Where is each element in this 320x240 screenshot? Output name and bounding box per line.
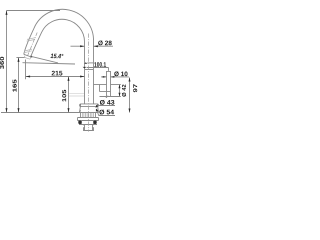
label dia 28 [98, 41, 112, 46]
body seam line [85, 69, 93, 71]
top extension line [7, 10, 61, 12]
dim 42 ext top [111, 84, 121, 86]
arrow 10 left [103, 76, 107, 78]
spray head step 2 [24, 51, 32, 53]
label dia 10 [114, 71, 127, 76]
dim 28 left arrow line [71, 45, 85, 47]
skirt corner shading [80, 110, 98, 112]
spray head step 1 [24, 49, 32, 51]
label dia 54 [99, 110, 114, 115]
hose tube foot tick [106, 96, 108, 98]
arrow 100.1 collar bottom [83, 67, 87, 69]
arrow 215 left [26, 76, 30, 78]
spray head aerator [24, 56, 30, 60]
text labels [0, 41, 137, 115]
dim 100.1 lower leader [87, 67, 109, 69]
dim 100.1 right tick [108, 68, 110, 71]
arrow 97 bottom [129, 109, 131, 113]
label 105 [62, 90, 66, 102]
dim 10 right leader [111, 76, 129, 78]
arrow 42 bottom [119, 93, 121, 97]
washer [78, 118, 99, 121]
lower stem [85, 125, 93, 131]
label dia 43 [100, 100, 115, 105]
base skirt [80, 107, 99, 113]
counter top line [1, 112, 99, 114]
dim 43 leader [96, 106, 115, 108]
spray head seam 1 [27, 38, 35, 40]
arrow 105 bottom [68, 108, 70, 112]
arrow 97 top [129, 78, 131, 82]
arrow 54 [96, 109, 98, 112]
faint hidden lines [69, 93, 84, 96]
spray head details [24, 38, 35, 60]
tail collar [84, 128, 94, 131]
hatching shank threads [82, 113, 93, 117]
centerline spray head [28, 33, 38, 56]
side port step [99, 85, 101, 92]
hose tube Ø10 [107, 71, 111, 96]
shank bottom / washer top [78, 117, 99, 119]
spray head seam 2 [27, 39, 35, 41]
label 15.4 [51, 53, 64, 58]
spout inner curve [31, 19, 84, 104]
nut dark ends [78, 121, 96, 124]
extension line spray tip vertical [25, 60, 27, 80]
angle line ray B [23, 63, 76, 64]
label dia 42 [122, 85, 126, 97]
spray head face [24, 54, 32, 57]
arrow 360 top [6, 11, 8, 15]
label 215 [52, 71, 63, 76]
arrow 360 bottom [6, 108, 8, 112]
dim 54 leader [96, 109, 115, 116]
dim 10 left arrow line [101, 76, 107, 78]
arrow 28 left [80, 45, 84, 47]
arrow 42 top [119, 85, 121, 89]
arrow 100.1 collar top [84, 62, 87, 64]
dimension line 105 [68, 77, 70, 113]
arrow 165 bottom [18, 108, 20, 112]
arrow 43 [96, 105, 99, 108]
side port bottom [100, 91, 111, 93]
dimension line 97 [129, 78, 131, 113]
arrow 15.4 [31, 55, 33, 58]
dimension line 165 [18, 58, 20, 113]
dim 42 ext bottom [100, 96, 121, 98]
label 165 [13, 80, 17, 92]
base collar disk [80, 104, 99, 107]
hose tube bottom [107, 96, 111, 98]
label 360 [0, 57, 4, 69]
label 100.1 [94, 62, 106, 67]
stem side ticks [83, 124, 93, 126]
side port top [94, 84, 107, 86]
dimension line 215 [26, 76, 85, 78]
extension line spray outlet [16, 57, 24, 59]
arrow 165 top [18, 58, 20, 62]
dimension line 360 [6, 11, 8, 113]
dimension line 42 [119, 85, 121, 97]
nut bottom line [79, 124, 97, 126]
dim 100.1 upper leader [87, 62, 93, 64]
shank [81, 113, 96, 118]
arrow 28 right [94, 45, 98, 47]
arrow 10 right [111, 76, 115, 78]
arrow 105 top [68, 77, 70, 81]
collar end shading [80, 104, 98, 112]
centerline body [28, 33, 89, 132]
mounting nut [82, 121, 94, 125]
spout outer curve [24, 9, 94, 104]
angle line ray A [32, 57, 58, 63]
arrowheads [6, 11, 131, 113]
arrow 215 right [80, 76, 84, 78]
label 97 [133, 84, 137, 92]
dim 28 right leader [94, 45, 114, 47]
